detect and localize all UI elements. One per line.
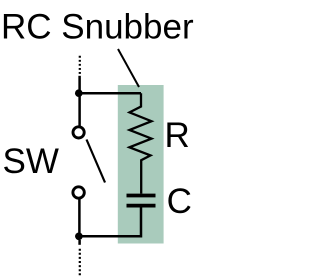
svg-text:RC Snubber: RC Snubber	[1, 8, 194, 47]
svg-text:SW: SW	[3, 142, 59, 181]
svg-text:R: R	[165, 116, 190, 155]
svg-text:C: C	[167, 182, 192, 221]
